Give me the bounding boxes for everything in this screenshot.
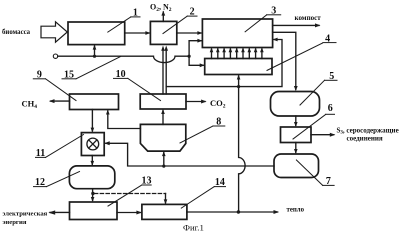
label 6 leader <box>293 114 335 139</box>
label 13 leader <box>108 185 151 206</box>
block 7 (rounded tank) <box>274 154 319 178</box>
arrows block4 up into block3 (row of 9) <box>210 48 264 59</box>
wire block1 to block2 <box>125 31 151 35</box>
label 3 leader <box>245 15 281 32</box>
svg-text:2: 2 <box>190 7 195 18</box>
label 10 leader <box>114 78 161 100</box>
block 6 <box>281 127 312 143</box>
junction on line15 at block1 branch <box>93 55 96 58</box>
arrow block10 to CO2 output <box>186 100 207 104</box>
label 1 leader <box>108 17 140 32</box>
arrow from line15 up into block1 <box>93 45 97 57</box>
svg-text:биомасса: биомасса <box>2 29 31 36</box>
arrow block13 to block14 <box>117 211 142 215</box>
arrow block9 to CH4 output <box>49 99 70 103</box>
junction heat line bottom <box>237 210 240 213</box>
dashed control wire to block14 <box>95 194 168 205</box>
label 9 leader <box>33 79 76 101</box>
block 12 (rounded) <box>69 166 114 189</box>
svg-text:10: 10 <box>116 69 126 80</box>
arrow block9 down to block11 <box>91 110 95 133</box>
arrow block12 down to block13 <box>91 189 95 202</box>
arrow block6 to sulfur output <box>311 133 335 137</box>
svg-text:6: 6 <box>328 103 333 114</box>
block arrow biomass input <box>41 22 67 42</box>
block 11 circle-X symbol <box>87 138 99 150</box>
junction line15 right end <box>188 55 191 58</box>
wire junction up into block3 left <box>189 39 202 56</box>
label 11 leader <box>36 135 84 158</box>
label 8 leader <box>180 126 225 143</box>
arrow up into block4 bottom <box>237 75 241 87</box>
wire block8 left to block9 bottom <box>106 110 140 129</box>
arrow up into block8 bottom <box>162 151 166 166</box>
svg-text:энергия: энергия <box>3 219 27 226</box>
label 2 leader <box>163 16 197 33</box>
junction heat line at x238 <box>237 85 240 88</box>
label 7 leader <box>296 160 334 185</box>
arrow block6 to block7 <box>294 143 298 155</box>
block 5 (rounded tank) <box>271 92 320 117</box>
svg-text:O2, N2: O2, N2 <box>150 2 172 13</box>
svg-text:5: 5 <box>329 71 334 82</box>
block 1 (biomass preparation) <box>68 22 125 45</box>
arrows block2 exchange with block10 (pair of vertical lines) <box>161 46 168 95</box>
svg-text:8: 8 <box>216 117 221 128</box>
label 14 leader <box>181 187 225 209</box>
block 2 (gas separator) <box>150 21 176 44</box>
block 14 <box>142 204 187 219</box>
svg-text:тепло: тепло <box>287 207 305 214</box>
wire vertical x238 down with hop to heat line <box>239 87 245 212</box>
arrow block11 down to block12 <box>91 156 95 166</box>
svg-text:1: 1 <box>133 7 138 18</box>
arrow block5 to block6 <box>294 116 298 127</box>
junction on block12-13 wire <box>91 192 94 195</box>
wire 15 recycle line with hop <box>58 56 189 62</box>
svg-text:12: 12 <box>35 177 45 188</box>
svg-text:14: 14 <box>215 177 225 188</box>
svg-text:7: 7 <box>326 176 331 187</box>
svg-text:4: 4 <box>325 34 330 45</box>
wire heat return line y166 from block7 <box>104 141 274 166</box>
junction on y166 line <box>162 165 165 168</box>
svg-text:9: 9 <box>37 69 42 80</box>
block 13 (generator) <box>70 202 118 220</box>
wire junction down into block4 left <box>189 56 205 67</box>
block 10 <box>140 94 186 109</box>
block 8 (hopper) <box>140 124 185 151</box>
wire block3 right to block5 <box>273 32 298 91</box>
svg-text:Фиг.1: Фиг.1 <box>183 222 204 232</box>
arrow block2 up to O2,N2 output <box>161 11 165 22</box>
block 4 (fermenter bottom) <box>205 59 272 75</box>
wire block2 to block3 <box>177 31 203 35</box>
arrow block13 to electric output <box>48 210 69 214</box>
svg-text:компост: компост <box>295 14 322 22</box>
label 15 leader <box>62 57 121 79</box>
arrow block8 top to block10 bottom <box>161 109 165 124</box>
block 11 (burner square) <box>81 133 104 156</box>
arrow block3 to compost output <box>273 23 321 27</box>
svg-text:15: 15 <box>64 69 74 80</box>
svg-text:электрическая: электрическая <box>3 211 48 218</box>
svg-text:3: 3 <box>271 5 276 16</box>
svg-text:11: 11 <box>36 148 45 159</box>
node line15 terminal circle <box>53 54 57 58</box>
wire block14 to heat output <box>187 210 279 214</box>
label 5 leader <box>300 80 337 105</box>
wire from pair right to block3 right side <box>166 38 282 87</box>
block 9 (methane purification) <box>70 94 119 110</box>
label 12 leader <box>34 172 80 187</box>
block 3 (fermenter top) <box>202 19 272 48</box>
svg-text:13: 13 <box>142 176 152 187</box>
svg-text:соединения: соединения <box>347 135 383 143</box>
label 4 leader <box>267 43 336 71</box>
